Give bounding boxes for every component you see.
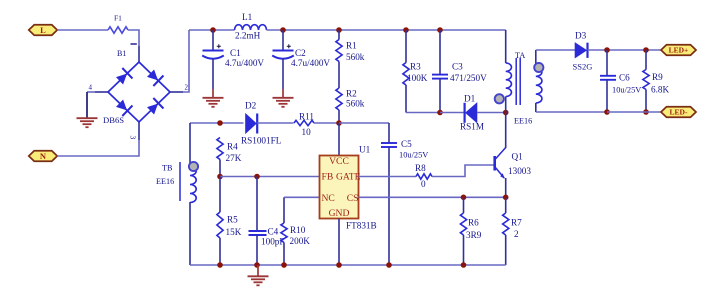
ground at rail (257, 265, 259, 276)
svg-text:TA: TA (515, 51, 525, 60)
node R6 top (461, 195, 467, 201)
transformer TA secondary polarity dot (534, 63, 543, 72)
svg-text:3R9: 3R9 (466, 230, 482, 240)
transformer TA secondary winding (536, 68, 542, 104)
resistor R11 (294, 120, 314, 125)
transformer TB winding (190, 167, 196, 203)
node R10 bottom (281, 262, 287, 268)
wire bridge pin4 to ground (95, 91, 108, 93)
svg-text:FB: FB (322, 172, 334, 183)
wire C6 bottom lead (606, 80, 608, 112)
resistor R4 (217, 138, 223, 160)
svg-text:R8: R8 (415, 163, 426, 173)
wire C2 top lead (282, 30, 284, 51)
port LED+ (661, 45, 696, 56)
diode D2 (246, 114, 257, 134)
svg-text:C4: C4 (268, 227, 279, 237)
wire GATE to R8 (359, 176, 417, 178)
svg-text:2: 2 (185, 84, 189, 92)
wire R3 top lead (405, 30, 407, 63)
wire CS (359, 196, 506, 198)
node C6 top (604, 47, 610, 53)
node VCC (336, 120, 342, 126)
op-amp U1 body (320, 156, 359, 219)
wire C1 top lead (212, 30, 214, 51)
node C5 bottom (386, 262, 392, 268)
wire U1 VCC lead (338, 123, 340, 156)
wire R10 bottom lead (283, 243, 285, 266)
svg-text:F1: F1 (114, 14, 122, 23)
transformer TA primary winding (506, 63, 512, 97)
svg-text:R1: R1 (346, 41, 357, 51)
bridge diode bottom-left (114, 98, 132, 116)
node C4 bottom (254, 262, 260, 268)
node R6 bottom (461, 262, 467, 268)
transformer TA primary lead bottom (505, 97, 507, 113)
transformer TB lead top (189, 123, 191, 167)
fuse F1 (108, 27, 128, 33)
svg-text:R10: R10 (290, 225, 306, 235)
wire R11 to VCC node (314, 122, 339, 124)
wire LED- rail (607, 111, 661, 113)
node R9 top (643, 47, 649, 53)
resistor R3 (403, 63, 409, 86)
svg-text:R7: R7 (511, 218, 522, 228)
node R3 top (403, 27, 409, 33)
node R1 top (336, 27, 342, 33)
node R9 bottom (643, 109, 649, 115)
wire fuse to bridge pin1 (128, 30, 139, 46)
wire R9 top lead (645, 50, 647, 70)
svg-text:27K: 27K (226, 153, 242, 163)
pin 1 (131, 43, 137, 45)
svg-text:10: 10 (302, 127, 312, 137)
svg-text:GND: GND (329, 208, 350, 219)
svg-text:R2: R2 (346, 89, 357, 99)
resistor R7 (503, 213, 509, 235)
resistor R10 (281, 223, 287, 243)
svg-text:D2: D2 (245, 101, 257, 111)
svg-text:VCC: VCC (329, 156, 349, 167)
svg-text:C1: C1 (230, 48, 241, 58)
wire U1 GND lead (338, 219, 340, 266)
svg-text:DB6S: DB6S (103, 115, 124, 125)
node C2 top (280, 27, 286, 33)
svg-text:471/250V: 471/250V (450, 73, 487, 83)
svg-text:Q1: Q1 (512, 152, 524, 162)
node R7 top (503, 195, 509, 201)
svg-text:R3: R3 (410, 62, 421, 72)
wire FB (220, 176, 320, 178)
wire C6 top lead (606, 50, 608, 76)
wire R3 bottom (405, 85, 407, 113)
bridge diode top-left (114, 68, 132, 86)
svg-text:R4: R4 (227, 142, 238, 152)
svg-text:D1: D1 (464, 94, 476, 104)
svg-text:LED+: LED+ (669, 46, 689, 55)
wire C5 bottom lead (388, 147, 390, 265)
wire top rail left (189, 29, 235, 31)
wire Q1 collector (505, 113, 507, 149)
transformer TB lead bottom (189, 202, 191, 265)
resistor R1 (336, 40, 342, 62)
transformer TA primary lead (505, 30, 507, 63)
wire R6 leads (463, 197, 465, 213)
capacitor C5 (381, 142, 397, 144)
svg-text:6.8K: 6.8K (651, 85, 669, 95)
wire bridge pin2 to top rail (170, 91, 183, 93)
node R5 bottom (217, 262, 223, 268)
node C6 bottom (604, 109, 610, 115)
wire D1 to TA (477, 112, 506, 114)
svg-text:RS1001FL: RS1001FL (241, 136, 282, 146)
wire D3 to LED+ (588, 49, 662, 51)
ground at C2 (273, 97, 294, 99)
resistor R6 (460, 213, 466, 235)
svg-text:EE16: EE16 (514, 117, 532, 126)
wire R1-R2 (338, 62, 340, 89)
port N (29, 151, 58, 162)
svg-text:GATE: GATE (336, 172, 361, 183)
transformer TA secondary lead top (535, 50, 537, 68)
wire C3 bottom lead (439, 79, 441, 113)
svg-text:R5: R5 (227, 215, 238, 225)
wire R8 to Q1 base (432, 165, 494, 177)
ground at bridge (77, 117, 98, 119)
bridge B1 outline (108, 62, 170, 122)
svg-text:0: 0 (421, 179, 426, 189)
transformer TB polarity dot (189, 162, 198, 171)
svg-text:4.7u/400V: 4.7u/400V (291, 58, 330, 68)
wire C3 to D1 (440, 112, 465, 114)
svg-text:B1: B1 (117, 49, 126, 58)
wire R10 top (283, 197, 285, 223)
svg-text:200K: 200K (290, 236, 311, 246)
svg-text:15K: 15K (226, 227, 242, 237)
svg-text:100K: 100K (407, 73, 428, 83)
node R4 top (217, 120, 223, 126)
wire C1 bottom lead (212, 59, 214, 89)
svg-text:C2: C2 (295, 48, 306, 58)
wire TB top to D2 (190, 122, 244, 124)
node C4 top (254, 174, 260, 180)
svg-text:EE16: EE16 (156, 177, 174, 186)
svg-text:R6: R6 (468, 218, 479, 228)
transformer TA core (515, 58, 517, 105)
bridge diode top-right (145, 68, 163, 86)
svg-text:FT831B: FT831B (346, 221, 377, 231)
node C3 bottom (437, 110, 443, 116)
node C3 top (437, 27, 443, 33)
wire C4 bottom lead (256, 235, 258, 265)
resistor R9 (643, 70, 649, 90)
capacitor C1 (203, 50, 224, 52)
wire C3 top lead (439, 30, 441, 75)
svg-text:4: 4 (89, 84, 93, 92)
diode D3 (575, 43, 587, 58)
svg-text:R9: R9 (652, 72, 663, 82)
svg-text:RS1M: RS1M (460, 122, 484, 132)
svg-text:R11: R11 (299, 112, 314, 122)
wire top rail right (267, 29, 506, 31)
svg-text:10u/25V: 10u/25V (399, 151, 428, 160)
svg-text:CS: CS (347, 193, 359, 204)
svg-text:C3: C3 (452, 62, 463, 72)
svg-text:NC: NC (322, 193, 335, 204)
transformer TA primary polarity dot (495, 94, 504, 103)
wire ground rail (190, 264, 506, 266)
wire R2 bottom lead (338, 110, 340, 123)
resistor R8 (416, 174, 432, 179)
svg-text:3: 3 (129, 136, 138, 140)
wire Q1 emitter (505, 178, 507, 197)
wire D2 to R11 (257, 122, 293, 124)
wire R7 leads (505, 197, 507, 213)
svg-text:2.2mH: 2.2mH (235, 31, 261, 41)
port L (29, 25, 58, 36)
svg-text:LED-: LED- (670, 108, 688, 117)
resistor R5 (217, 212, 223, 238)
node TA primary bottom (503, 110, 509, 116)
svg-text:560k: 560k (346, 52, 365, 62)
svg-text:560k: 560k (346, 99, 365, 109)
svg-text:N: N (40, 151, 47, 161)
capacitor C6 (600, 75, 616, 77)
wire R9 bottom lead (645, 90, 647, 113)
svg-text:4.7u/400V: 4.7u/400V (225, 58, 264, 68)
transformer TA secondary lead bottom (535, 103, 537, 112)
svg-text:10u/25V: 10u/25V (612, 86, 641, 95)
transistor Q1 (493, 156, 496, 171)
svg-text:L: L (40, 25, 46, 35)
wire R5 leads (219, 177, 221, 213)
svg-text:C5: C5 (401, 139, 412, 149)
wire VCC node to C5 (339, 122, 389, 124)
svg-text:U1: U1 (359, 145, 371, 155)
svg-text:C6: C6 (619, 73, 630, 83)
svg-text:TB: TB (162, 164, 173, 173)
diode D1 (466, 103, 478, 123)
bridge diode bottom-right (145, 98, 163, 116)
capacitor C3 (432, 74, 448, 76)
svg-text:13003: 13003 (508, 166, 531, 176)
wire L to fuse (57, 29, 108, 31)
resistor R2 (336, 88, 342, 110)
svg-text:2: 2 (514, 229, 519, 239)
transformer TB core (179, 162, 181, 201)
wire R1 top lead (338, 30, 340, 40)
ground at C1 (203, 97, 224, 99)
node C1 top (210, 27, 216, 33)
wire C5 top lead (388, 123, 390, 143)
svg-text:L1: L1 (242, 12, 253, 22)
wire C2 bottom lead (282, 59, 284, 89)
wire N to bridge pin3 (57, 140, 139, 156)
wire R4 to FB node (219, 160, 221, 177)
wire C4 top lead (256, 177, 258, 232)
capacitor C2 (273, 50, 294, 52)
inductor L1 (235, 25, 267, 30)
svg-text:D3: D3 (575, 31, 587, 41)
port LED- (661, 107, 696, 118)
capacitor C4 (249, 230, 267, 232)
node U1 GND bottom (336, 262, 342, 268)
node FB (217, 174, 223, 180)
svg-text:SS2G: SS2G (573, 62, 593, 72)
